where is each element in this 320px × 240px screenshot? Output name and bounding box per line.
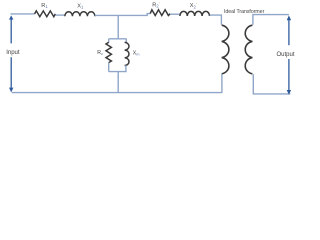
wire shunt top stub [117, 15, 119, 38]
inductor X1 [65, 12, 95, 17]
svg-text:R1: R1 [41, 3, 48, 9]
output port lower arrow [288, 59, 290, 90]
svg-text:Rc: Rc [97, 50, 103, 56]
wire secondary bottom lead and output bottom rail [253, 74, 290, 94]
resistor R1 [35, 11, 56, 17]
svg-text:Xm: Xm [133, 51, 140, 57]
svg-text:X2': X2' [190, 2, 197, 9]
wire primary bottom lead [221, 74, 223, 92]
svg-text:R2': R2' [152, 2, 159, 9]
wire X1 to R2' with junction at shunt stub [95, 14, 150, 16]
input port upper arrow [10, 19, 12, 43]
inductor X2' [180, 11, 210, 16]
transformer primary winding [222, 25, 229, 74]
wire shunt right bottom drop [125, 65, 127, 71]
wire secondary top lead and output top rail [253, 15, 289, 25]
wire shunt top bar [109, 38, 127, 40]
wire X2' to transformer primary top lead [210, 15, 222, 25]
wire shunt bottom stub [117, 72, 119, 92]
svg-text:Output: Output [277, 52, 295, 58]
wire shunt bottom bar [109, 71, 127, 73]
transformer secondary winding [245, 25, 252, 74]
wire shunt right top drop [125, 39, 127, 42]
wire between R1 and X1 [55, 14, 65, 16]
svg-text:Ideal Transformer: Ideal Transformer [224, 9, 265, 15]
wire between R2' and X2' [170, 13, 180, 15]
inductor Xm (shunt, vertical) [125, 42, 129, 65]
wire shunt left top drop [108, 39, 110, 43]
wire shunt left bottom drop [108, 62, 110, 71]
output port upper arrow [288, 20, 290, 45]
svg-text:X1: X1 [77, 4, 84, 10]
svg-text:Input: Input [6, 50, 20, 56]
wire bottom rail [12, 92, 223, 94]
input port lower arrow [10, 57, 12, 88]
resistor R2' [150, 10, 170, 16]
resistor Rc (shunt, vertical) [106, 42, 111, 62]
wire top rail left segment [10, 13, 34, 15]
